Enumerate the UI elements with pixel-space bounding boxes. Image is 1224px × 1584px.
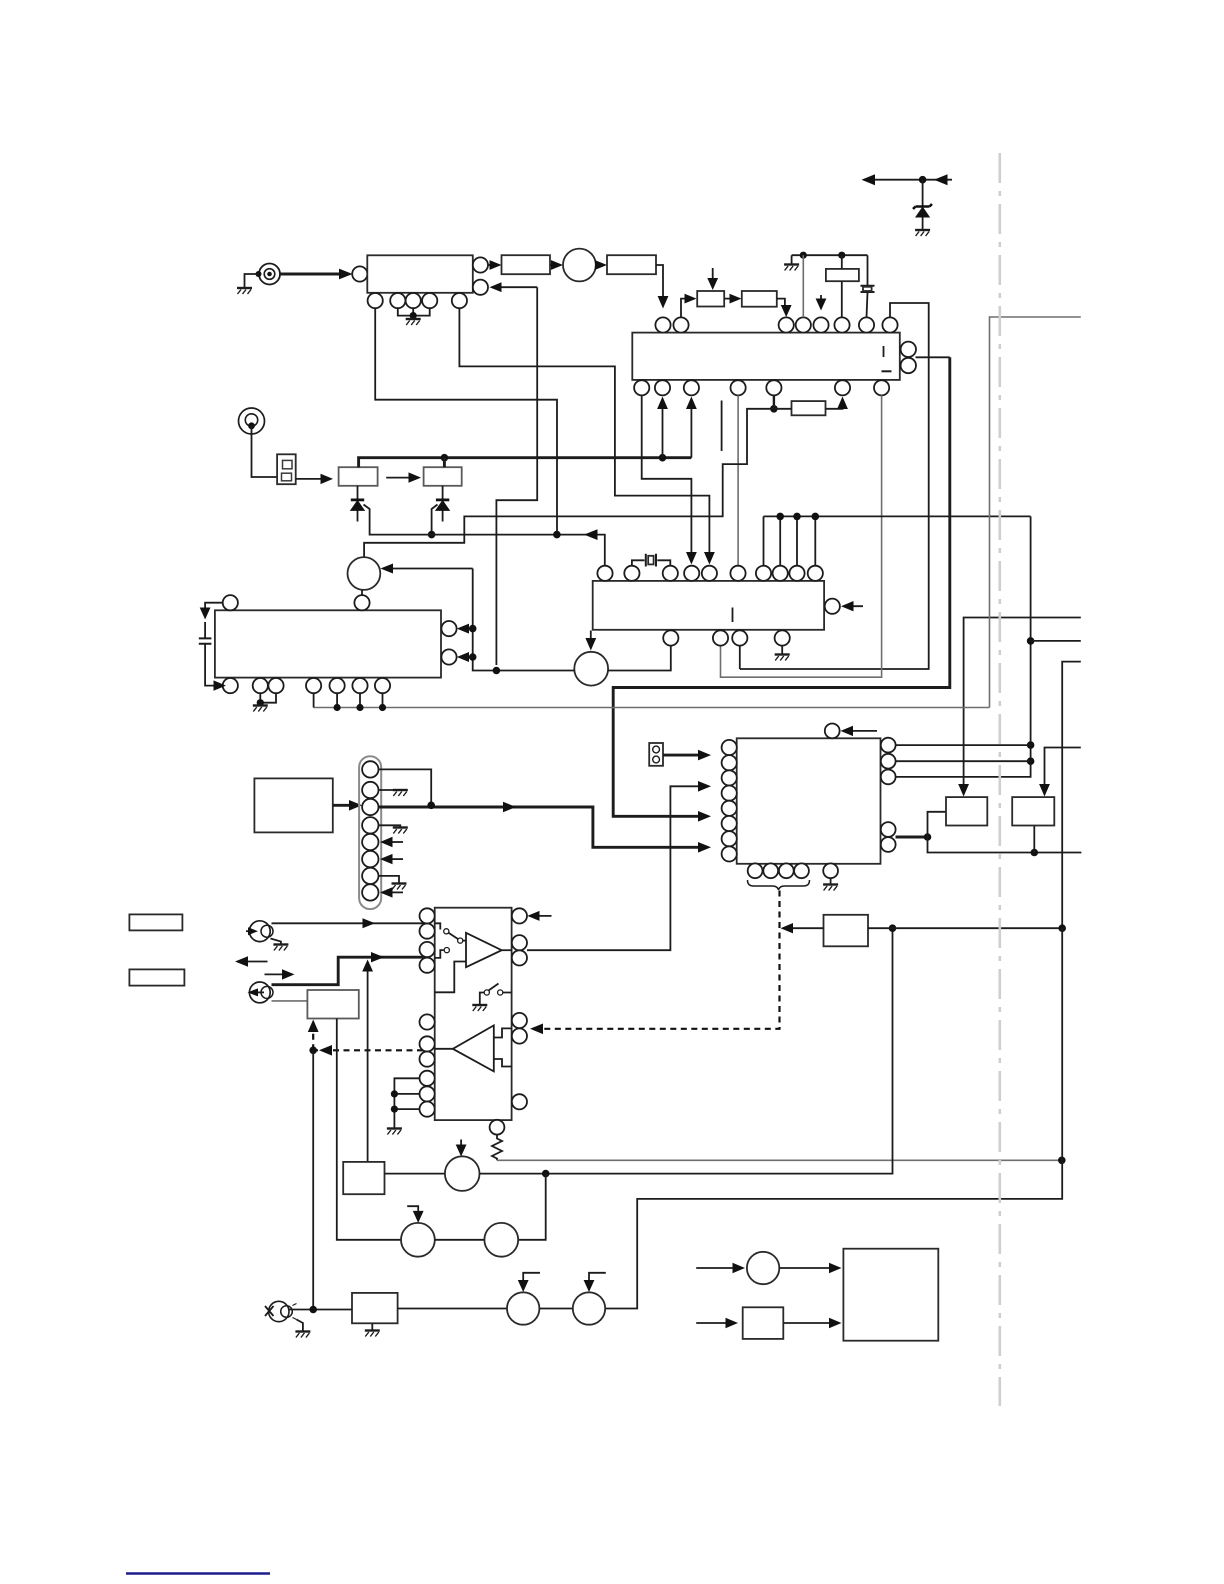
pin U5.r2	[881, 754, 896, 769]
box B7 (IF box)	[352, 1293, 398, 1323]
wire C-A right to x892 riser	[480, 928, 893, 1173]
pin U5.l4	[722, 786, 737, 801]
op-amp A1 output wire	[502, 949, 512, 951]
pin CN1.8	[362, 884, 378, 900]
mixer M1	[563, 249, 596, 282]
pin CN1.3	[362, 799, 378, 815]
junction	[309, 1047, 317, 1055]
bus wire to U2 t7-t10	[764, 516, 1031, 566]
wire U0.fb from feedback line (arrow)	[495, 286, 537, 288]
ground	[775, 655, 790, 661]
junction	[1027, 741, 1035, 749]
wire U0.b5 route down-right	[459, 308, 709, 557]
pin U4.r4	[512, 1013, 527, 1028]
pin U3.b2	[253, 678, 268, 693]
mark inside U2	[732, 608, 734, 623]
junction	[924, 833, 932, 841]
IC U2	[593, 581, 824, 630]
wire U0.out1 to F1 (arrow)	[488, 264, 497, 266]
connector J5 (tuner ant)	[265, 1301, 297, 1321]
junction	[812, 513, 820, 521]
mark inside U1	[883, 346, 885, 357]
wire B6 left (arrow into dashed riser)	[786, 927, 824, 929]
wire J1 to U0 (thick arrow)	[280, 273, 348, 276]
wire CN1.4 to ground	[379, 825, 401, 827]
wire to U5.r1	[896, 744, 1031, 746]
junction	[309, 1306, 317, 1314]
pin U1.t4	[796, 317, 811, 332]
stub arrow into U2.right	[846, 605, 863, 607]
pin U5.l6	[722, 816, 737, 831]
wire R2 to t3	[777, 299, 786, 310]
wire B3 to CN1 pin3 (thick arrow)	[333, 804, 356, 807]
monitor box M	[843, 1249, 938, 1341]
pin U2.t2	[624, 566, 639, 581]
ground	[784, 265, 799, 271]
pin U5.l3	[722, 770, 737, 785]
pin U4.l4	[420, 958, 435, 973]
resistor R4	[792, 401, 826, 415]
wire arrows into U3 right pins	[462, 628, 473, 630]
connector J1 (RF in jack)	[256, 264, 281, 285]
supply wire above U1	[792, 255, 868, 264]
junction	[1027, 757, 1035, 765]
pin U2.t4	[684, 566, 699, 581]
pin CN1.4	[362, 817, 378, 833]
stub wire right	[1031, 640, 1081, 642]
wire CN1.7 to ground	[379, 876, 400, 883]
pin U1.b7	[874, 380, 889, 395]
wire A2 inputs to right edge	[494, 1028, 512, 1037]
pin U2.t6	[730, 566, 745, 581]
wire stub to E-1 (arrow)	[696, 1267, 739, 1269]
stub arrow into CN1.8	[388, 891, 403, 893]
pin U2.t9	[789, 566, 804, 581]
stub arrow into U5.top	[845, 730, 877, 732]
thick wire U5.r4/r5 to filter box net	[896, 836, 928, 839]
wire t8 up right and down (to bb3 route)	[740, 303, 929, 669]
pin U4.r1	[512, 908, 527, 923]
balun B1	[339, 467, 378, 486]
wire b1 route down to U2.t4	[642, 395, 692, 557]
op-amp A1 inside U4	[466, 933, 502, 967]
wire J2 to X2 connector	[252, 426, 278, 477]
pin U2.t8	[773, 566, 788, 581]
wire through R3 to t6	[841, 255, 843, 317]
wire supply rail with two left arrows	[866, 179, 952, 181]
pin U4.l9	[420, 1086, 435, 1101]
circle E-1	[747, 1252, 779, 1284]
pin U4.l3	[420, 942, 435, 957]
pin U4.l6	[420, 1036, 435, 1051]
pin U3.b5	[330, 678, 345, 693]
pin U1.t6	[834, 317, 849, 332]
wire VCO1 left to IC3 junction	[473, 569, 575, 671]
ceramic resonator X1	[867, 255, 868, 317]
IF bus gray: IC3 ground bus right and up to stub	[314, 317, 1081, 708]
connector J2 (antenna)	[239, 408, 265, 434]
pin U5.b4	[794, 863, 809, 878]
pin U5.r4	[881, 822, 896, 837]
wire J5 ground stub	[297, 1320, 303, 1332]
filter box B6	[824, 915, 869, 947]
junction	[1027, 637, 1035, 645]
diode D2 tap wire	[432, 505, 438, 535]
gray line R5 to right rail	[497, 1159, 1062, 1161]
pin U5.b5	[823, 863, 838, 878]
mark inside U1	[882, 370, 892, 372]
pin U5.b1	[748, 863, 763, 878]
pin U1.b1	[634, 380, 649, 395]
wire b3 stub to thick rail	[690, 404, 692, 458]
wire X2 to B1 (arrow)	[296, 478, 327, 480]
pin U1.t1	[655, 317, 670, 332]
zener diode D3	[922, 180, 924, 230]
pin U0.out1	[473, 257, 488, 272]
junction	[770, 405, 778, 413]
junction	[493, 667, 501, 675]
ground	[406, 319, 421, 325]
junction	[1058, 1157, 1066, 1165]
IC U1	[632, 333, 900, 380]
junction	[776, 513, 784, 521]
wire VCO1 right to bb1	[608, 646, 671, 671]
circle C-C	[484, 1223, 518, 1257]
wire E-2 to monitor box (arrow)	[783, 1322, 835, 1324]
box4 (AFC filter)	[1012, 797, 1054, 825]
pin U1.b4	[731, 380, 746, 395]
pin U5.l8	[722, 846, 737, 861]
hook arrow into C-B top	[407, 1206, 418, 1216]
wire U0 b2-b4 to ground bracket	[398, 308, 430, 315]
wire junction 545 down to C-C	[518, 1174, 546, 1240]
pin U1.b2	[655, 380, 670, 395]
junction	[919, 176, 927, 184]
wire U2 area to box3 top (via x963)	[964, 618, 1081, 790]
pin U4.bottom	[490, 1120, 505, 1135]
pin U3.r2	[441, 649, 456, 664]
diode D1	[357, 486, 359, 522]
ground	[915, 230, 930, 236]
dashed control wire from brace to U4	[536, 891, 780, 1029]
pin U2.right	[825, 599, 840, 614]
wire box4 bottom stub	[1033, 825, 1035, 852]
pin U1.b5	[766, 380, 781, 395]
stub arrow right (audio in)	[265, 973, 290, 975]
delay box B4	[307, 990, 358, 1019]
wire b5 dot to R4	[774, 408, 792, 410]
pin U3.b1	[223, 678, 238, 693]
wire t2 to R1 (arrow)	[681, 299, 691, 318]
wire B2 top stub	[443, 458, 446, 468]
filter R2	[742, 291, 777, 307]
hook arrow into D-1 top	[523, 1273, 540, 1285]
wire R1 to R2 (arrow)	[724, 298, 736, 300]
pin U2.t3	[663, 566, 678, 581]
wire VCO2 bottom to U3.t2	[361, 590, 363, 595]
pin U3.b7	[375, 678, 390, 693]
wire F1 to M1 (arrow)	[550, 264, 558, 266]
wire M1 to F2 (arrow)	[596, 264, 602, 266]
diode D2	[442, 486, 444, 522]
box B5	[343, 1162, 384, 1194]
crystal X2 between t2,t3	[632, 560, 670, 565]
pin U5.l2	[722, 755, 737, 770]
wire b7 route to U2.bb2 (gray)	[721, 395, 882, 677]
pin U3.t2	[354, 595, 369, 610]
page fold dash-dot line	[998, 153, 1001, 1406]
pin U5.r3	[881, 770, 896, 785]
junction	[428, 531, 436, 539]
wire b2 up-arrow stub with junction on thick rail	[662, 404, 664, 458]
stub corner wire down at 1062	[1062, 662, 1081, 929]
pin CN1.6	[362, 851, 378, 867]
RCA jack J3	[246, 921, 273, 942]
wire E-1 to monitor box (arrow)	[779, 1267, 835, 1269]
module box B3	[254, 778, 332, 832]
dashed wire U4 to B4 (mute control)	[313, 1049, 423, 1051]
footer blue rule	[126, 1572, 270, 1575]
wire B5 to C-A	[385, 1173, 446, 1175]
IC U5	[737, 738, 881, 864]
filter F2	[607, 255, 656, 274]
wire CN1.1 to thick rail	[379, 769, 432, 805]
thick wire J4 to U4	[272, 957, 428, 985]
pin CN1.7	[362, 868, 378, 884]
thick distribution wire (U1 right to U5)	[613, 357, 950, 816]
junction	[889, 924, 897, 932]
pin U2.t5	[702, 566, 717, 581]
pin U1.t7	[859, 317, 874, 332]
pin U0.b1	[368, 293, 383, 308]
circle D-1	[507, 1292, 539, 1324]
circle C-A (55.5 osc)	[445, 1156, 480, 1191]
junction	[793, 513, 801, 521]
mark near b4	[721, 401, 723, 452]
pin CN1.5	[362, 834, 378, 850]
diode D1 tap wire	[364, 505, 428, 535]
wire b5,b6,b7 stubs to bus	[337, 693, 382, 707]
balun B2	[424, 467, 462, 486]
wire J1 to ground	[245, 274, 259, 288]
wire B6 right to x1062 rail	[868, 927, 1062, 929]
AGC pot R1	[697, 291, 724, 307]
pin U2.bb3	[732, 630, 747, 645]
junction	[410, 312, 417, 319]
pin CN1.1	[362, 761, 378, 777]
pin U4.l10	[420, 1102, 435, 1117]
stub arrow into U4.r1	[531, 915, 552, 917]
box E-2	[743, 1307, 784, 1339]
wire t5 stub arrow	[820, 295, 822, 303]
junction	[1058, 924, 1066, 932]
wire J4 to delay box (gray)	[272, 1000, 308, 1002]
wire b2,b3 to ground	[260, 693, 276, 703]
resistor R3	[826, 269, 859, 281]
pin U1.b3	[684, 380, 699, 395]
stub arrow into R1 top	[712, 268, 714, 283]
wire feedback vertical to IF area	[496, 287, 537, 665]
small label box L1	[129, 914, 182, 930]
junction	[427, 802, 435, 810]
wire X3 to U5 (thick arrow)	[663, 754, 704, 757]
switch SW1 lower throw	[435, 950, 444, 958]
wire bb3 down-right (joins t8 route)	[739, 646, 741, 669]
IC U3	[215, 610, 441, 677]
wire U2 bottom edge to VCO1 (arrow down)	[590, 631, 592, 644]
pin U0.b3	[406, 293, 421, 308]
pin U5.b2	[763, 863, 778, 878]
wire stub to box4 (arrow down)	[1045, 748, 1081, 790]
pin U1.t8	[882, 317, 897, 332]
pin U1.t5	[813, 317, 828, 332]
wire t4 up (gray)	[802, 255, 804, 317]
junction	[553, 531, 561, 539]
pin U3.t1	[223, 595, 238, 610]
wire J3 to ground	[271, 939, 281, 945]
wire b4 to bus	[313, 693, 315, 707]
wire J3 to U4 (audio L in, arrow)	[272, 922, 428, 924]
pin U2.t7	[756, 566, 771, 581]
ground	[237, 288, 252, 294]
pin CN1.2	[362, 782, 378, 798]
pin U3.r1	[441, 621, 456, 636]
wire up-arrow into thick J4 line	[367, 966, 369, 1162]
stub arrow left (audio out)	[240, 961, 268, 963]
connector X3 (2-pin)	[649, 743, 663, 766]
pin U4.l1	[420, 908, 435, 923]
pin U1.t3	[779, 317, 794, 332]
junction	[542, 1170, 550, 1178]
wire B7 to D-1	[398, 1308, 507, 1310]
junction	[659, 454, 667, 462]
wire to U5.r2	[896, 760, 1031, 762]
RCA jack J4	[248, 982, 274, 1003]
pin U2.t10	[808, 566, 823, 581]
connector X2 (2-terminal)	[277, 454, 296, 484]
wire junction up to box3	[928, 812, 947, 837]
connector CN1 strip outline	[359, 756, 381, 909]
wire bb4 to ground	[781, 646, 783, 654]
pin U4.l7	[420, 1052, 435, 1067]
pin U3.b4	[306, 678, 321, 693]
filter F1	[502, 255, 551, 274]
box3 (tuning filter)	[946, 797, 987, 825]
pin U1.r1	[901, 342, 916, 357]
wire junction down to tuner audio line	[312, 1050, 314, 1309]
op-amp A2 inside U4 (points left)	[453, 1025, 494, 1071]
pin U4.r2	[512, 935, 527, 950]
stub arrow into C-A top	[460, 1140, 462, 1151]
stub arrow into CN1.5	[388, 841, 403, 843]
pin U4.r6	[512, 1094, 527, 1109]
pin U3.b6	[352, 678, 367, 693]
thick band-select wire to B1/B2 tops	[359, 458, 692, 468]
thick audio rail CN1.3 to U5	[379, 807, 705, 847]
wire b5 stub	[773, 395, 775, 408]
pin U0.b5	[452, 293, 467, 308]
pin U4.l2	[420, 924, 435, 939]
wire U5.b5 to ground	[830, 878, 832, 884]
switch SW2 inside U4 with ground	[484, 990, 489, 995]
junction	[838, 252, 845, 259]
wire F2 to U1 pin t1	[656, 265, 663, 301]
wire U4 audio out up to U5 (arrow)	[527, 786, 704, 950]
pin U5.r1	[881, 738, 896, 753]
wire stub to E-2 (arrow)	[696, 1322, 732, 1324]
pin U2.bb2	[713, 630, 728, 645]
pin U5.b3	[779, 863, 794, 878]
pin U2.bb1	[663, 630, 678, 645]
junction	[1031, 849, 1039, 857]
wire J5 to B7	[289, 1309, 352, 1311]
rail x1062 down to bottom route	[606, 928, 1062, 1308]
pin U3.b3	[268, 678, 283, 693]
pin U1.t2	[673, 317, 688, 332]
hook arrow into D-2 top	[589, 1273, 606, 1285]
pin U1.b6	[835, 380, 850, 395]
pin U0.b2	[390, 293, 405, 308]
pin U0.b4	[422, 293, 437, 308]
wire B1 to B2 (arrow)	[386, 477, 415, 479]
ground	[253, 706, 268, 712]
wire b4 to U2.t6 (gray)	[737, 395, 739, 566]
pin U2.bb4	[775, 630, 790, 645]
band control wire to U2.t1 (arrow left)	[428, 535, 605, 566]
wire A2 output to left edge	[435, 1048, 453, 1050]
pin U0.fb	[473, 280, 488, 295]
pin U4.r5	[512, 1028, 527, 1043]
pin U5.l7	[722, 831, 737, 846]
pin U4.l5	[420, 1014, 435, 1029]
pin U4.l8	[420, 1071, 435, 1086]
wire B4 bottom down to C-B circle	[337, 1019, 401, 1240]
VCO1 circle	[574, 652, 608, 686]
circle D-2	[573, 1292, 605, 1324]
capacitor C1 chain left of U3	[205, 603, 223, 686]
pin U5.top	[825, 724, 840, 739]
wire b5 route to VCO2	[364, 409, 774, 557]
junction	[800, 252, 807, 259]
wire R4 to b6 (arrow up)	[826, 404, 843, 409]
IC U4	[435, 908, 512, 1120]
circle C-B	[401, 1223, 435, 1257]
pin U4.r3	[512, 950, 527, 965]
VCO2 circle	[348, 557, 381, 590]
resistor R5 below U4	[492, 1135, 502, 1161]
wire junction down-right rail	[928, 837, 1082, 853]
pin U5.r5	[881, 837, 896, 852]
wire U4 left pins l8,l9,l10 to ground rail	[394, 1078, 419, 1128]
switch SW1 inside U4	[435, 923, 441, 929]
pin U1.r2	[901, 358, 916, 373]
brace under U5.b1-b4	[748, 880, 810, 890]
wire bus down right side to U5 pins	[896, 516, 1031, 777]
wire D-1 to D-2	[539, 1308, 572, 1310]
wire C-B to C-C	[435, 1239, 485, 1241]
pin U5.l1	[722, 740, 737, 755]
small label box L2	[129, 969, 184, 985]
tuner front-end block U0	[367, 255, 473, 292]
wire r1/r2 to thick feed	[916, 356, 950, 358]
pin U2.t1	[597, 566, 612, 581]
wire U0.b1 route down-right	[375, 308, 557, 534]
ground under B7	[371, 1323, 373, 1330]
wire into VCO2 right (arrow)	[386, 568, 473, 570]
feedback wire inside U4	[435, 962, 466, 993]
pin U5.l5	[722, 801, 737, 816]
pin U0.in	[352, 266, 367, 281]
